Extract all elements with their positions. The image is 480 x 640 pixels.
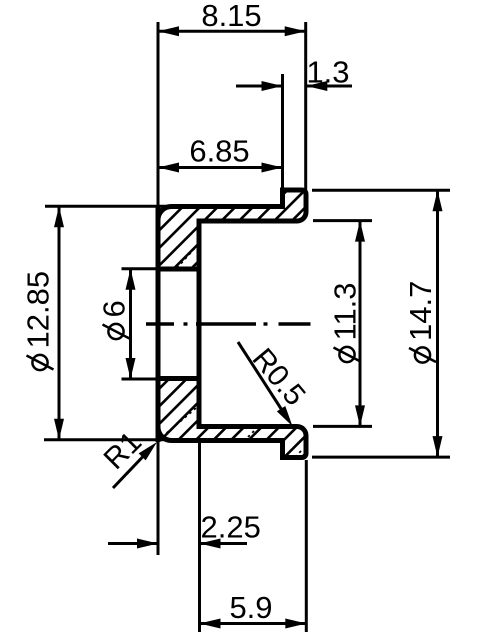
ext line bore bottom (y=426.4) (313, 425, 372, 428)
svg-text:6: 6 (97, 300, 132, 317)
dotted hatch accents (162, 249, 303, 458)
svg-text:14.7: 14.7 (403, 281, 438, 341)
svg-text:5.9: 5.9 (229, 590, 272, 625)
centerline (dash-dot axis) (146, 322, 311, 325)
dimension 1.3 (236, 85, 352, 88)
svg-text:12.85: 12.85 (21, 271, 56, 349)
svg-text:11.3: 11.3 (328, 282, 363, 340)
dimension dia 14.7 (436, 190, 439, 457)
dimension 6.85 (158, 166, 283, 169)
dimension 8.15 (158, 30, 306, 33)
ext line right edge top (x=305.7) (304, 22, 307, 190)
part outline: upper cut section (158, 190, 306, 269)
dimension 2.25 (108, 542, 247, 545)
ext line hole top (y=268.8) (122, 267, 157, 270)
part outline: lower cut section (158, 379, 306, 458)
ext line flange top (y=190.3) (312, 189, 450, 192)
dimension dia 6 (129, 269, 132, 379)
ext line OD bottom (y=439.8) (44, 438, 168, 441)
ext line hole bottom (y=379) (122, 378, 157, 381)
inner back wall edge across bore (197, 266, 202, 381)
dimension dia 11.3 (359, 221, 362, 427)
ext line right edge bottom (x=306.3) (305, 460, 308, 632)
leader R0.5 (238, 342, 288, 420)
svg-text:2.25: 2.25 (201, 510, 261, 545)
svg-text:8.15: 8.15 (201, 0, 261, 33)
left face edge across bore (156, 205, 161, 442)
dimension 5.9 (200, 622, 307, 625)
ext line inner wall bottom (x=199.5) (198, 442, 201, 632)
ext line OD top (y=206.3) (45, 205, 168, 208)
leader R1 (113, 447, 152, 488)
svg-text:1.3: 1.3 (306, 55, 349, 90)
ext line bore top (y=220.6) (313, 219, 372, 222)
dimension dia 12.85 (58, 206, 61, 439)
ext line flange bottom (y=457.1) (312, 456, 450, 459)
ext line step (x=282.5) (281, 74, 284, 190)
svg-text:6.85: 6.85 (189, 134, 249, 169)
ext line left edge (x=158) (157, 22, 160, 206)
